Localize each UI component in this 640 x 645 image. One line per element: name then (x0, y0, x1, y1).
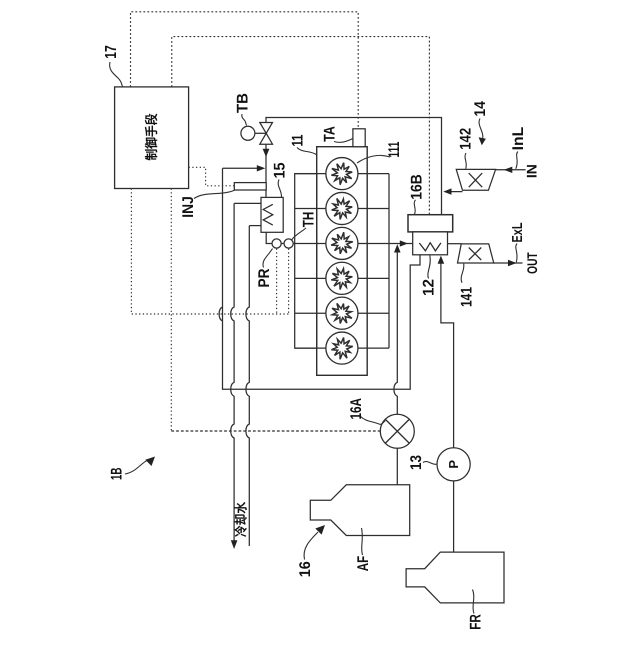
svg-text:TB: TB (234, 93, 251, 113)
svg-text:TH: TH (300, 212, 317, 228)
temperature sensor TH circle (284, 239, 293, 248)
leader for 16A (360, 416, 385, 424)
controller box 17 (115, 87, 189, 189)
svg-text:15: 15 (271, 162, 288, 178)
combustion starburst in cylinder 2 (332, 199, 353, 220)
svg-text:冷却水: 冷却水 (234, 501, 249, 537)
leader for 142 (465, 153, 466, 169)
leader for 15 (278, 180, 281, 198)
svg-text:111: 111 (386, 141, 403, 157)
combustion starburst in cylinder 1 (331, 163, 352, 185)
leader for 11 (297, 148, 317, 156)
flow arrow from 142 into downpipe (443, 188, 451, 194)
return branch wire into inlet pipe (223, 167, 264, 169)
leader for 141 (461, 264, 464, 283)
heat exchanger 15 zigzag element (263, 204, 273, 225)
signal wire from sensor PR (dotted) (276, 249, 278, 314)
svg-text:16: 16 (297, 561, 314, 577)
arrowhead of 1B leader (145, 457, 155, 467)
heat exchanger 15 box (261, 197, 283, 232)
inlet line InL (496, 169, 526, 171)
intake fan 142 trapezoid (456, 169, 495, 190)
exhaust line ExL (494, 262, 523, 264)
leader for 16B (414, 200, 415, 215)
temperature sensor TA box (353, 129, 365, 147)
pipe HX15 outlet through sensors to engine (266, 232, 295, 243)
cylinder 5 of engine 11 (326, 297, 358, 329)
sensor signal bus to controller (dotted) (131, 189, 288, 315)
cooling water port lower of HX15 (249, 225, 261, 227)
flow arrow up into HX12 bottom (438, 256, 445, 264)
tank 16B box (408, 215, 453, 232)
air filter AF body (310, 485, 409, 536)
combustion starburst in cylinder 3 (331, 232, 353, 254)
leader for TA (334, 139, 353, 143)
cylinder 2 of engine 11 (326, 192, 358, 224)
leader arrow curve for 1B (125, 460, 148, 474)
fuel filter FR body (406, 552, 504, 603)
leader for 111 (357, 155, 390, 163)
leader for TB (242, 114, 247, 126)
pipe from TB valve top to tank 16B (266, 118, 442, 215)
leader for 13 (423, 462, 437, 465)
heat exchanger 12 box (413, 232, 448, 255)
svg-text:16A: 16A (348, 398, 365, 420)
svg-text:141: 141 (459, 287, 476, 307)
svg-text:TA: TA (321, 126, 338, 142)
pressure sensor PR circle (272, 239, 281, 248)
engine right collector (388, 174, 390, 349)
svg-text:FR: FR (468, 614, 485, 630)
flow arrow OUT (508, 260, 517, 266)
leader arrow curve for 14 (479, 119, 483, 143)
leader for TH (292, 228, 307, 240)
control line to valve 16A horizontal (dashed) (171, 430, 380, 432)
engine block 11 (317, 147, 368, 376)
engine coolant gallery row 5 (295, 312, 389, 314)
pipe TB valve down to heat exchanger 15 (265, 144, 267, 197)
combustion starburst in cylinder 4 (331, 269, 352, 290)
svg-text:OUT: OUT (524, 252, 540, 274)
svg-text:13: 13 (408, 455, 425, 470)
leader for 17 (110, 62, 123, 87)
control line controller to sensor TA (dotted) (131, 12, 359, 129)
pipe valve 16A to air filter AF (396, 448, 398, 485)
pipe valve 16A up to engine outlet (with hop) (394, 249, 397, 415)
svg-text:12: 12 (421, 279, 438, 296)
TB actuator circle (241, 126, 255, 140)
cylinder 4 of engine 11 (326, 262, 358, 294)
leader for FR (473, 590, 475, 614)
engine intake manifold (295, 174, 317, 349)
arrowhead of 14 leader (479, 137, 486, 145)
svg-text:P: P (446, 460, 461, 469)
exhaust fan 141 trapezoid (458, 244, 494, 263)
flow arrow into heat exchanger 12 (400, 240, 408, 246)
svg-text:IN: IN (524, 164, 540, 178)
fan 141 X blades (469, 248, 482, 261)
heat exchanger 12 zigzag element (419, 243, 441, 251)
engine coolant gallery row 4 (295, 277, 389, 279)
valve 16A circle (380, 414, 414, 448)
pump 13 circle (437, 448, 470, 481)
svg-text:INJ: INJ (180, 196, 197, 218)
cooling water return line with hops (246, 226, 249, 546)
throttle valve TB bowtie (260, 123, 273, 134)
svg-text:InL: InL (510, 127, 527, 151)
svg-text:142: 142 (458, 128, 475, 150)
pipe pump 13 to fuel filter FR (453, 481, 455, 552)
cooling water port upper of HX15 (234, 202, 261, 204)
pipe pump 13 to heat exchanger 12 (441, 264, 454, 448)
fan 142 X blades (469, 173, 482, 187)
pipe HX12 to exhaust fan 141 (448, 243, 462, 245)
svg-text:14: 14 (472, 101, 489, 117)
svg-text:1B: 1B (109, 468, 126, 481)
cooling water supply line with hops (231, 203, 234, 540)
svg-text:ExL: ExL (510, 222, 526, 242)
engine coolant gallery row 2 (295, 208, 389, 210)
engine coolant gallery row 3 (outlet to HX12) (295, 243, 413, 245)
combustion starburst in cylinder 5 (332, 303, 352, 323)
svg-text:AF: AF (355, 556, 372, 572)
flow arrow into inlet pipe junction (257, 165, 266, 171)
injector INJ bar (234, 183, 266, 190)
pipe intake fan 142 outlet (445, 191, 463, 193)
cylinder 1 of engine 11 (326, 158, 358, 190)
valve 16A X (385, 419, 409, 443)
svg-text:制御手段: 制御手段 (144, 113, 159, 161)
leader for 12 (428, 255, 430, 278)
leader for ExL (516, 244, 517, 263)
hop on return branch wire over sensor bus (219, 307, 222, 321)
leader for AF (362, 528, 363, 555)
engine coolant gallery row 1 (295, 173, 389, 175)
leader arrow curve for 16 (304, 532, 318, 560)
leader for INJ (194, 190, 235, 199)
TB actuator stem (255, 132, 266, 134)
cooling water outlet arrow (231, 540, 238, 549)
svg-text:16B: 16B (408, 174, 425, 200)
leader for InL (516, 152, 518, 169)
flow arrow IN (504, 167, 513, 173)
svg-text:11: 11 (289, 134, 306, 146)
combustion starburst in cylinder 6 (332, 338, 353, 360)
cylinder 6 of engine 11 (326, 332, 358, 364)
control line controller to tank 16B (dotted) (172, 37, 430, 215)
engine coolant gallery row 6 (295, 347, 389, 349)
leader for PR (263, 249, 273, 268)
arrowhead of 16 leader (315, 525, 325, 535)
control line controller to valve 16A vertical (dotted) (170, 189, 172, 432)
signal wire from sensor TH (dotted) (288, 249, 290, 314)
return pipe from heat exchanger 12 around engine (223, 168, 421, 389)
cylinder 3 of engine 11 (326, 227, 358, 259)
svg-text:PR: PR (256, 269, 273, 288)
flow arrow up into outlet pipe (394, 244, 401, 252)
svg-text:17: 17 (103, 45, 120, 59)
control line controller to injector INJ (dotted) (189, 167, 235, 186)
flow arrow down on TB pipe (263, 149, 270, 157)
